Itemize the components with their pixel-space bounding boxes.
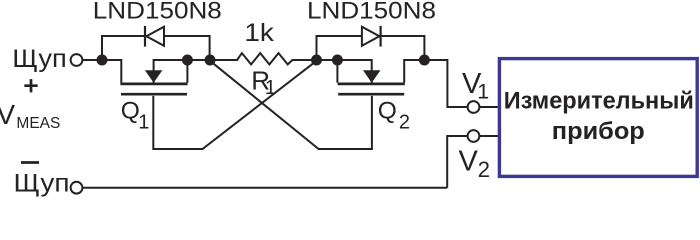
node: Q2 drain junction [419,55,430,66]
transistor Q1 gate bar [121,93,187,96]
label: minus sign [21,161,39,164]
diode (across Q1), triangle [146,27,164,46]
svg-text:1k: 1k [244,19,274,47]
node: Q1 source junction [182,55,193,66]
diode (across Q2), cathode bar [380,26,382,47]
wire: Q1 source node to R1 left node [187,59,210,61]
diode (across Q1), cathode bar [144,26,146,47]
svg-text:Q: Q [121,98,140,125]
wire: R1 right node to Q2 source node [317,59,338,61]
svg-text:LND150N8: LND150N8 [93,0,222,24]
node: R1 left junction [205,55,216,66]
svg-text:2: 2 [399,112,410,134]
node: Q2 source junction [332,55,343,66]
svg-text:LND150N8: LND150N8 [307,0,436,24]
wire: Q2 drain node to V1 terminal [424,60,467,107]
label: plus sign [24,79,37,92]
wire: Q2 gate cross-coupling to R1 left node [210,61,372,149]
svg-text:Q: Q [378,98,397,125]
terminal: bottom probe [71,182,83,194]
svg-text:1: 1 [477,80,489,104]
wire: bottom rail to bottom probe [83,187,447,189]
svg-text:Щуп: Щуп [14,169,70,197]
svg-text:1: 1 [138,112,149,134]
transistor Q2 source branch [337,60,371,83]
transistor Q2 source arrow [363,70,381,83]
wire: Q1 gate cross-coupling to R1 right node [153,61,316,149]
svg-text:1: 1 [265,77,276,99]
svg-text:прибор: прибор [552,118,645,145]
diode branch of Q2 [317,36,425,60]
diode branch of Q1 [102,36,210,60]
svg-text:MEAS: MEAS [16,115,60,132]
wire: V2 terminal down to bottom rail [447,136,467,188]
transistor Q1 source arrow [145,70,163,83]
node: R1 right junction [311,55,322,66]
wire: top probe to Q1 drain [83,60,121,83]
wire: instrument box to V2 terminal [479,135,499,137]
svg-text:V: V [0,99,15,130]
transistor Q2 gate bar [338,93,404,96]
svg-text:Измерительный: Измерительный [504,88,694,115]
instrument box [499,59,697,177]
diode (across Q2), triangle [362,27,380,46]
resistor R1 zigzag [210,53,317,64]
transistor Q1 source branch [154,60,188,83]
transistor Q2 drain branch [404,60,424,83]
svg-text:2: 2 [478,157,490,182]
svg-text:Щуп: Щуп [12,45,67,73]
svg-text:V: V [459,146,479,178]
wire: V1 terminal to instrument box [479,106,499,108]
terminal: top probe [71,54,83,66]
terminal V2 [468,130,480,142]
node: probe junction [97,55,108,66]
transistor Q2 channel bar [338,83,405,86]
transistor Q1 channel bar [120,83,187,86]
terminal V1 [468,101,480,113]
